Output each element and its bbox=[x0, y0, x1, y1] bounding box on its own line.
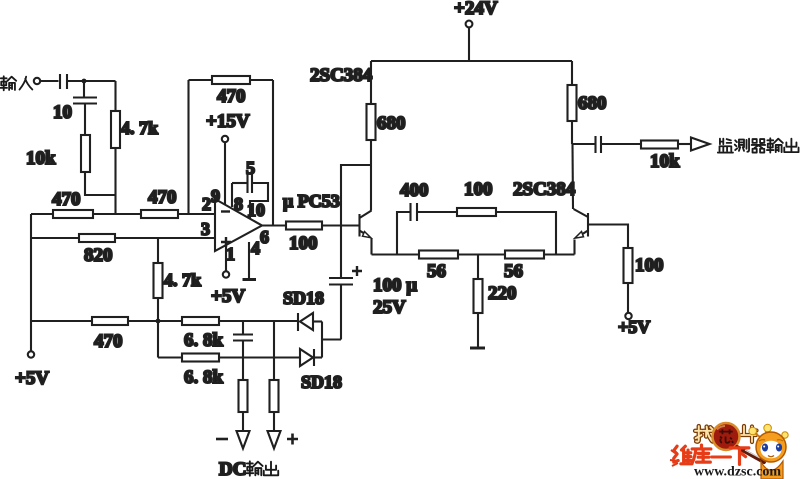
wire row2 (non-inverting input) bbox=[31, 237, 215, 239]
svg-text:3: 3 bbox=[201, 219, 210, 239]
wire Q2 base to bias resistor bbox=[588, 225, 628, 249]
label DC输出 bbox=[219, 459, 278, 479]
resistor 56 left bbox=[419, 251, 458, 283]
capacitor 5 pins 8-10 bbox=[232, 158, 268, 219]
svg-text:680: 680 bbox=[578, 93, 607, 114]
wire right vertical top bbox=[571, 61, 573, 85]
terminal +15V pin9 bbox=[206, 111, 250, 204]
capacitor output coupling bbox=[596, 136, 602, 153]
ground 220 bbox=[470, 313, 485, 348]
wire cap to 10k bbox=[601, 143, 641, 145]
resistor 6.8k bottom bbox=[182, 354, 224, 389]
wire cap to 100 bbox=[417, 211, 457, 213]
wire op-amp output bbox=[262, 224, 286, 226]
wire row3 bbox=[31, 320, 297, 322]
wire 220 branch bbox=[477, 255, 479, 280]
svg-text:2SC384: 2SC384 bbox=[513, 179, 576, 200]
svg-text:6: 6 bbox=[260, 227, 269, 247]
svg-text:μ PC53: μ PC53 bbox=[283, 191, 340, 211]
wire row1 (inverting input) bbox=[31, 213, 215, 215]
wire 4.7k bottom down to row1 bbox=[114, 148, 116, 214]
capacitor C1 series input bbox=[60, 74, 67, 89]
svg-text:+5V: +5V bbox=[618, 317, 650, 337]
svg-text:56: 56 bbox=[504, 261, 523, 282]
transistor Q2 2SC384 bbox=[574, 209, 589, 255]
op-amp U1 uPC53 bbox=[215, 191, 340, 251]
wire top right branch down to 4.7k bbox=[114, 81, 116, 111]
svg-text:100: 100 bbox=[464, 179, 493, 200]
svg-text:www.dzsc.com: www.dzsc.com bbox=[694, 465, 781, 479]
wire 100u cap up through base row to 680 junction bbox=[341, 165, 371, 278]
svg-text:10k: 10k bbox=[26, 148, 56, 169]
svg-text:400: 400 bbox=[400, 180, 429, 201]
svg-text:470: 470 bbox=[94, 331, 123, 352]
svg-text:4. 7k: 4. 7k bbox=[121, 118, 158, 138]
svg-text:6. 8k: 6. 8k bbox=[184, 330, 224, 351]
resistor 220 bbox=[474, 279, 517, 313]
svg-text:9: 9 bbox=[211, 186, 220, 206]
svg-text:10: 10 bbox=[53, 102, 72, 123]
resistor 4.7k bias bbox=[154, 263, 202, 298]
svg-text:100 μ: 100 μ bbox=[373, 275, 417, 296]
resistor 10k output bbox=[641, 141, 680, 173]
wire left vertical to Q1 collector bbox=[370, 140, 372, 211]
resistor 10k bbox=[26, 135, 90, 172]
capacitor DC filter bbox=[233, 321, 253, 358]
wire middle rail right drop bbox=[496, 212, 556, 255]
wire diode tie right bbox=[322, 285, 341, 358]
wire input to C1 bbox=[40, 80, 58, 82]
diode SD18 top bbox=[283, 288, 324, 331]
wire output tap bbox=[572, 143, 595, 145]
wire 100 to Q1 base bbox=[322, 224, 359, 226]
ground pin4 bbox=[243, 242, 257, 280]
wire left vertical top bbox=[370, 61, 372, 104]
resistor 100 Q2 bias bbox=[624, 248, 664, 283]
svg-text:56: 56 bbox=[427, 261, 446, 282]
capacitor 100u 25V bbox=[329, 266, 417, 318]
transistor Q1 2SC384 bbox=[360, 211, 372, 255]
svg-text:6. 8k: 6. 8k bbox=[184, 367, 224, 388]
svg-text:1: 1 bbox=[226, 244, 235, 264]
wire to minus arrow bbox=[242, 412, 244, 431]
svg-text:2: 2 bbox=[202, 194, 211, 214]
svg-text:4. 7k: 4. 7k bbox=[164, 270, 201, 290]
resistor 470 row1 right bbox=[141, 187, 178, 218]
wire row4 bbox=[158, 356, 300, 358]
wire 4.7k to row3 bbox=[157, 298, 159, 321]
label 监测器输出 bbox=[718, 138, 799, 152]
diode SD18 bottom bbox=[300, 349, 342, 392]
node row3 junction bbox=[156, 319, 161, 324]
node input junction bbox=[82, 79, 87, 84]
svg-text:+5V: +5V bbox=[15, 368, 49, 389]
svg-text:100: 100 bbox=[289, 233, 318, 254]
维库一下 red bbox=[674, 445, 749, 464]
svg-text:+5V: +5V bbox=[211, 286, 245, 307]
magnifier with 芯 bbox=[713, 423, 765, 462]
找 outlined bbox=[695, 426, 756, 442]
input terminal 输入 bbox=[0, 76, 40, 90]
svg-text:680: 680 bbox=[377, 113, 406, 134]
terminal +5V right bbox=[618, 283, 650, 337]
svg-text:SD18: SD18 bbox=[301, 372, 342, 392]
resistor 4.7k input bbox=[111, 111, 158, 148]
resistor 56 right bbox=[504, 251, 544, 283]
svg-text:470: 470 bbox=[217, 86, 246, 107]
svg-text:2SC384: 2SC384 bbox=[310, 65, 373, 86]
wire top rail bbox=[371, 60, 572, 62]
svg-text:470: 470 bbox=[52, 189, 81, 210]
svg-text:DC: DC bbox=[219, 459, 246, 479]
resistor 470 feedback bbox=[212, 76, 250, 107]
svg-text:4: 4 bbox=[251, 238, 260, 258]
resistor 680 left bbox=[367, 104, 406, 140]
resistor 470 row3 bbox=[92, 317, 128, 352]
wire 10k bottom to joint bbox=[85, 172, 116, 195]
wire bottom rail bbox=[372, 253, 575, 255]
svg-text:SD18: SD18 bbox=[283, 288, 324, 308]
wire plus output branch bbox=[273, 321, 275, 380]
svg-text:100: 100 bbox=[635, 255, 664, 276]
svg-text:8: 8 bbox=[234, 194, 243, 214]
wire minus output branch bbox=[242, 358, 244, 381]
resistor plus output bbox=[270, 380, 279, 412]
sparkle bbox=[670, 450, 678, 466]
resistor 680 right bbox=[568, 85, 607, 121]
capacitor C2 shunt bbox=[73, 98, 97, 104]
svg-text:10k: 10k bbox=[650, 151, 680, 172]
resistor 470 row1 left bbox=[52, 189, 93, 218]
svg-text:470: 470 bbox=[148, 187, 177, 208]
wire right vertical to Q2 collector bbox=[571, 121, 573, 144]
wire junction down to C2 bbox=[83, 81, 85, 97]
terminal +24V bbox=[454, 0, 498, 61]
terminal arrow minus bbox=[216, 431, 250, 449]
watermark logo dzsc bbox=[670, 423, 788, 479]
terminal arrow output bbox=[691, 138, 710, 151]
terminal +5V pin1 bbox=[211, 244, 245, 307]
terminal arrow plus bbox=[268, 431, 299, 449]
feedback loop wires bbox=[189, 80, 274, 226]
svg-text:25V: 25V bbox=[373, 297, 406, 318]
resistor 100 middle bbox=[457, 179, 496, 216]
resistor 100 output bbox=[286, 222, 322, 255]
wire C2 to R 10k bbox=[84, 104, 86, 136]
svg-text:5: 5 bbox=[246, 158, 255, 178]
svg-text:+24V: +24V bbox=[454, 0, 498, 19]
left rail wire bbox=[30, 214, 32, 351]
wire C1 to junction and right bbox=[67, 80, 116, 82]
capacitor 400 bbox=[400, 180, 429, 221]
wire middle rail left drop bbox=[397, 212, 410, 255]
wire row2 junction down to 4.7k bbox=[157, 238, 159, 263]
svg-text:220: 220 bbox=[488, 283, 517, 304]
terminal +5V left bbox=[15, 351, 49, 389]
mascot bbox=[749, 424, 788, 479]
resistor 820 bbox=[79, 234, 115, 266]
wire row3 to row4 drop bbox=[157, 321, 159, 358]
wire to plus arrow bbox=[273, 412, 275, 431]
svg-text:+15V: +15V bbox=[206, 111, 250, 132]
resistor minus output bbox=[239, 380, 248, 412]
resistor 6.8k top bbox=[182, 317, 224, 351]
wire 10k to arrow bbox=[678, 143, 691, 145]
svg-text:820: 820 bbox=[84, 245, 113, 266]
